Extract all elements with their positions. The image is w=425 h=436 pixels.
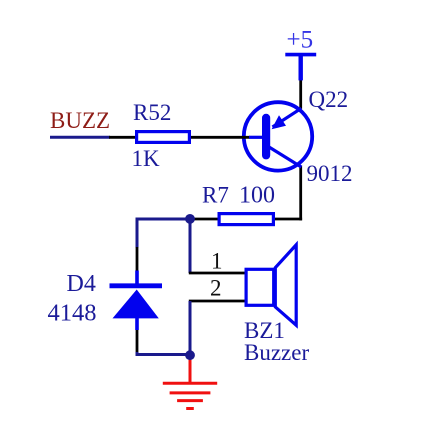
ground wire stub (red)	[189, 357, 192, 384]
diode D4 triangle	[113, 290, 159, 319]
svg-text:R7: R7	[202, 183, 229, 208]
ground bar 2	[170, 391, 211, 394]
wire: buzzer pin 2 (black)	[189, 300, 245, 303]
ground bar 4	[186, 407, 194, 410]
wire: diode branch top navy segment	[136, 218, 139, 248]
diode D4 anode lead stub top	[135, 271, 139, 285]
wire: junction down to buzzer pin 1 (navy)	[189, 219, 192, 273]
svg-text:R52: R52	[133, 100, 171, 125]
wire: collector down (black)	[299, 166, 302, 221]
svg-text:1: 1	[211, 249, 223, 274]
ground bar 3	[177, 399, 203, 402]
resistor R7 box	[219, 214, 273, 225]
svg-text:4148: 4148	[48, 300, 97, 327]
resistor R52 box	[137, 132, 190, 143]
transistor Q22 base bar	[262, 114, 270, 160]
transistor Q22 collector line	[269, 147, 301, 167]
wire: horizontal junction to diode branch (navy)	[136, 218, 191, 221]
wire: pin 2 down to ground junction (navy)	[189, 301, 192, 355]
svg-text:+5: +5	[287, 27, 314, 54]
diode D4 cathode bar	[110, 283, 163, 288]
power symbol +5 bar	[285, 53, 316, 57]
svg-text:BUZZ: BUZZ	[50, 108, 110, 133]
buzzer BZ1 body box	[246, 269, 274, 305]
wire: diode branch lower black segment	[136, 329, 139, 353]
wire: horizontal through R7 (black)	[190, 218, 302, 221]
transistor Q22 emitter arrow	[272, 115, 286, 129]
diode D4 lead stub bottom	[135, 318, 139, 331]
junction dot at ground node	[185, 350, 195, 360]
svg-text:100: 100	[239, 183, 275, 209]
ground bar 1	[163, 382, 217, 385]
junction dot at R7 node	[185, 214, 195, 224]
svg-text:9012: 9012	[307, 161, 353, 186]
transistor Q22 base stub	[249, 136, 262, 139]
svg-text:2: 2	[210, 276, 222, 301]
wire: bottom navy corner and run to ground junction	[137, 352, 190, 355]
svg-text:D4: D4	[67, 271, 96, 297]
transistor Q22 body circle	[244, 102, 312, 170]
power symbol +5 stub	[299, 55, 303, 81]
svg-text:Q22: Q22	[309, 87, 349, 112]
wire: diode branch black segment	[136, 247, 139, 271]
svg-text:1K: 1K	[132, 146, 161, 171]
buzzer BZ1 horn	[275, 245, 296, 325]
wire: buzzer pin 1 (black)	[189, 272, 245, 275]
wire: +5 stub to transistor emitter (black)	[299, 79, 302, 109]
wire: BUZZ net left segment (navy)	[50, 136, 110, 139]
svg-text:Buzzer: Buzzer	[244, 340, 309, 365]
transistor Q22 emitter line	[273, 108, 302, 127]
wire: base wire through R52 (black)	[109, 136, 250, 139]
